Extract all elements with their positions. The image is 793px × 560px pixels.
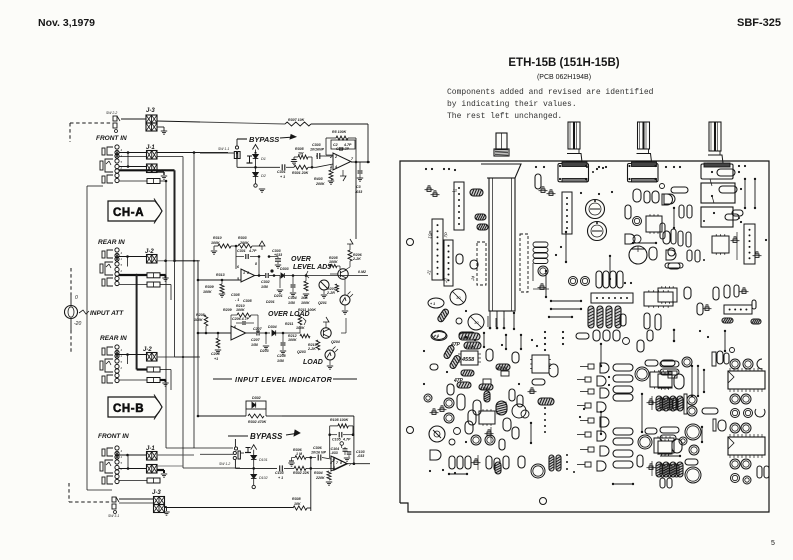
transistor PCB Q-b xyxy=(468,314,484,330)
ground J-1 B xyxy=(161,473,167,475)
svg-text:SW 1-1: SW 1-1 xyxy=(218,147,229,151)
oval F23 xyxy=(672,439,682,453)
jumper X9 xyxy=(600,412,602,434)
svg-text:R309: R309 xyxy=(205,285,214,289)
wire bold ground J-1 B xyxy=(157,469,164,471)
pills D36 xyxy=(465,421,473,434)
bracket F33 xyxy=(757,466,762,478)
wire J-3 to ground xyxy=(157,126,164,128)
svg-text:D203: D203 xyxy=(260,349,269,353)
svg-text:2-2K: 2-2K xyxy=(352,257,361,261)
ground D203 xyxy=(265,333,267,344)
svg-text:Q203: Q203 xyxy=(297,350,306,354)
transistor Q204 xyxy=(321,328,331,338)
trimmer E23 xyxy=(649,466,653,469)
svg-text:R301 20K: R301 20K xyxy=(292,171,309,175)
svg-text:R304: R304 xyxy=(314,471,323,475)
pill F28 xyxy=(685,459,698,465)
svg-text:C103: C103 xyxy=(275,471,284,475)
svg-text:1/50: 1/50 xyxy=(251,343,258,347)
resistor D2 hatched xyxy=(449,354,461,369)
svg-text:100K: 100K xyxy=(288,338,297,342)
pill D35 xyxy=(512,427,519,439)
pads C15 xyxy=(703,220,705,222)
IC C16 xyxy=(658,288,677,302)
IC B27 xyxy=(644,292,673,306)
ecap D1 xyxy=(431,332,447,341)
lamp LOAD xyxy=(325,350,335,360)
pills F11 column xyxy=(660,398,665,410)
svg-text:C207: C207 xyxy=(253,327,263,331)
pill C6 xyxy=(732,210,743,216)
pills C3 xyxy=(679,205,684,218)
svg-text:1/50: 1/50 xyxy=(288,301,295,305)
svg-text:SBF-325: SBF-325 xyxy=(737,17,781,29)
svg-text:4558: 4558 xyxy=(461,357,475,363)
svg-text:J-3: J-3 xyxy=(146,108,155,114)
potentiometer VR1 shaft xyxy=(496,133,507,149)
lamp Q201 xyxy=(340,295,350,305)
pills E1 xyxy=(576,333,589,339)
pills C17 xyxy=(684,287,691,299)
jumper D27 xyxy=(520,335,522,349)
pads B29 xyxy=(586,166,588,168)
svg-text:100K: 100K xyxy=(301,301,310,305)
resistor 470W hatched xyxy=(496,364,510,370)
svg-text:D304: D304 xyxy=(268,325,277,329)
dots E10 xyxy=(544,407,546,409)
PCB mounting hole bottom center xyxy=(540,498,547,505)
rings F13 xyxy=(687,395,697,405)
trimmer E29 xyxy=(530,390,534,393)
trimmer T1 xyxy=(427,188,431,191)
capacitor pills A4 xyxy=(456,254,463,264)
ground top xyxy=(161,130,167,132)
bracket F2 xyxy=(712,352,716,366)
pill F14 xyxy=(702,408,718,414)
capacitor bypass gnd xyxy=(247,155,252,157)
svg-text:1/50: 1/50 xyxy=(261,285,268,289)
resistor 600W hatched xyxy=(459,332,475,338)
IC C8 xyxy=(712,236,729,253)
diode ladder E11 xyxy=(588,364,594,369)
transistor Q205 xyxy=(338,269,348,279)
svg-text:10K: 10K xyxy=(294,502,301,506)
capacitor D30 xyxy=(447,384,454,395)
U-shape F17 xyxy=(755,409,765,417)
supply mark bottom amp xyxy=(251,445,257,450)
svg-text:-033: -033 xyxy=(331,451,338,455)
svg-text:16B: 16B xyxy=(301,296,308,300)
connector C21 xyxy=(724,305,752,314)
svg-text:100K: 100K xyxy=(329,260,338,264)
svg-text:REAR IN: REAR IN xyxy=(98,239,125,246)
big ring F30 xyxy=(685,467,701,483)
pills D15 xyxy=(503,418,511,431)
op-amp U2A xyxy=(241,269,255,282)
svg-text:R313: R313 xyxy=(216,273,225,277)
svg-text:R211 100K: R211 100K xyxy=(298,308,316,312)
svg-text:R105 100K: R105 100K xyxy=(330,418,349,422)
svg-text:+ 1: + 1 xyxy=(433,335,438,339)
capacitor C304 1/50 xyxy=(292,276,294,285)
svg-text:8: 8 xyxy=(255,262,257,266)
switch section SW4a xyxy=(701,183,735,203)
pads top left xyxy=(425,168,427,170)
svg-text:BYPASS: BYPASS xyxy=(249,135,279,144)
jumper D39 xyxy=(449,473,467,475)
svg-text:C2 4.7P: C2 4.7P xyxy=(336,147,350,151)
svg-text:C301: C301 xyxy=(277,170,286,174)
wire B17 xyxy=(532,263,534,281)
trimmer C18 xyxy=(742,290,746,293)
trimmer D37 xyxy=(487,432,491,435)
rings F24 xyxy=(679,437,687,445)
wire dashed top-left xyxy=(70,122,113,124)
resistor pills A2 xyxy=(475,214,486,220)
svg-text:10/16 NP: 10/16 NP xyxy=(311,451,327,455)
op-amp U2B output xyxy=(246,332,256,334)
ring E13 xyxy=(635,367,649,381)
resistor 47P hatched xyxy=(443,344,455,359)
pills C11 xyxy=(687,250,692,261)
rings D9 xyxy=(444,398,454,408)
rings D31 xyxy=(424,394,432,402)
wires J-2 rear B xyxy=(119,354,147,356)
IC E6 xyxy=(532,355,549,373)
pills C10 xyxy=(660,223,665,239)
capacitor C207 xyxy=(256,331,258,336)
jumper E28 xyxy=(613,483,633,485)
wire input row2 xyxy=(237,166,280,168)
jumper X1 xyxy=(565,232,567,262)
supply pin4 mark xyxy=(342,170,344,176)
svg-text:R305: R305 xyxy=(295,147,305,151)
pot VR1 pads xyxy=(489,311,491,327)
svg-text:7P: 7P xyxy=(443,232,449,238)
capacitor C105 4.7P xyxy=(330,434,337,436)
svg-text:1/50: 1/50 xyxy=(277,359,284,363)
pill B1 xyxy=(535,174,541,189)
blobs B10 xyxy=(625,234,635,244)
ring E27 xyxy=(531,464,545,478)
pills C19 xyxy=(697,303,703,315)
svg-text:INPUT LEVEL INDICATOR: INPUT LEVEL INDICATOR xyxy=(235,375,333,384)
potentiometer VR3 bushing xyxy=(639,149,649,154)
hole ring D16 xyxy=(429,426,445,442)
electrolytics E24 xyxy=(656,462,662,477)
trimmer C20 xyxy=(705,307,709,310)
label BYPASS bottom xyxy=(228,435,248,437)
svg-text:CH-A: CH-A xyxy=(113,207,144,219)
IC F22 partial xyxy=(658,441,672,454)
pads below VR1 xyxy=(487,316,489,327)
oval D11 xyxy=(468,410,476,425)
resistor 16B 100K xyxy=(305,276,307,282)
pills B4 xyxy=(633,189,641,202)
dots E26 xyxy=(566,454,568,456)
capacitor C3 -033 xyxy=(359,162,361,170)
supply balloon U1B xyxy=(340,442,344,446)
svg-text:2: 2 xyxy=(331,459,334,463)
jumper D5 xyxy=(505,335,507,349)
svg-text:C303: C303 xyxy=(312,143,321,147)
pill C13 xyxy=(665,263,683,268)
IC E14 xyxy=(650,372,672,387)
svg-text:220K: 220K xyxy=(315,476,325,480)
svg-text:D1: D1 xyxy=(261,157,266,161)
rings F15 xyxy=(730,394,740,404)
connector small front B xyxy=(147,478,160,483)
svg-text:-20: -20 xyxy=(74,321,81,327)
capacitor C301 xyxy=(281,164,283,170)
svg-text:8: 8 xyxy=(340,461,342,465)
jumper F25 xyxy=(701,427,703,442)
pill D3 xyxy=(486,349,493,361)
resistor 100W-2 hatched xyxy=(457,382,471,388)
coil stack B16 xyxy=(533,242,548,247)
diode D101 xyxy=(251,456,257,460)
jumper E18 xyxy=(641,394,643,432)
svg-text:R307 10K: R307 10K xyxy=(288,118,305,122)
trimmer C14 xyxy=(755,254,759,257)
pills D33 xyxy=(509,389,515,401)
trimmer D23 xyxy=(474,461,478,464)
svg-text:R209: R209 xyxy=(223,308,232,312)
svg-text:3: 3 xyxy=(330,165,332,169)
svg-text:D201: D201 xyxy=(274,294,283,298)
supply marks overload xyxy=(323,317,329,322)
jumper C25 xyxy=(673,330,675,341)
trimmer C9 xyxy=(733,239,737,242)
diode D1 xyxy=(253,155,259,159)
pills E12 column xyxy=(613,364,633,371)
svg-text:100K: 100K xyxy=(203,290,212,294)
svg-text:C205: C205 xyxy=(211,352,221,356)
svg-text:4: 4 xyxy=(334,165,337,169)
svg-text:470W: 470W xyxy=(479,387,490,391)
switch SW3-1 xyxy=(112,497,116,502)
jumper F35 xyxy=(673,330,675,341)
jumper right of VR1 xyxy=(513,313,515,329)
potentiometer VR2 bushing xyxy=(569,149,579,154)
test point dot xyxy=(270,269,273,272)
resistor 100W-3 hatched xyxy=(495,462,501,474)
resistor pills A1 xyxy=(470,189,483,196)
svg-text:R208: R208 xyxy=(196,313,205,317)
diode D2 xyxy=(255,167,257,172)
rings B19 xyxy=(569,277,578,286)
svg-text:R5 100K: R5 100K xyxy=(332,130,347,134)
pill B14 xyxy=(668,263,680,269)
big ring F20 xyxy=(685,424,701,440)
jumpers F9 xyxy=(691,366,693,396)
wire bypass R307 run xyxy=(121,118,146,120)
trimpot VR-B1 xyxy=(586,200,605,219)
wires J-2 rear A xyxy=(119,256,147,258)
jumper C4 xyxy=(744,179,746,208)
line F27 xyxy=(660,455,680,457)
svg-text:10: 10 xyxy=(456,295,461,300)
svg-text:R310: R310 xyxy=(213,236,222,240)
electrolytics E17 xyxy=(656,396,662,411)
capacitor bypass gnd B xyxy=(246,447,251,449)
pills F21 xyxy=(660,427,679,433)
electrolytics B25 x4 xyxy=(588,306,594,328)
svg-text:D201: D201 xyxy=(266,300,275,304)
svg-text:The rest left unchanged.: The rest left unchanged. xyxy=(447,112,562,121)
connector C7 xyxy=(744,224,755,264)
ring F1 xyxy=(682,357,692,367)
pad circle A6 xyxy=(456,318,462,324)
trimpot VR201 xyxy=(319,280,329,290)
pill B26 xyxy=(620,314,626,326)
rings D19 xyxy=(471,435,481,445)
svg-text:BYPASS: BYPASS xyxy=(250,432,283,441)
pills B28 xyxy=(644,313,650,329)
jack cluster front A xyxy=(107,147,113,155)
svg-text:SW 2-2: SW 2-2 xyxy=(106,111,117,115)
svg-text:+1: +1 xyxy=(214,357,218,361)
svg-text:OVER LOAD: OVER LOAD xyxy=(268,311,310,318)
jack cluster front B xyxy=(107,448,113,456)
svg-text:INPUT ATT: INPUT ATT xyxy=(90,310,124,317)
svg-text:4.7P: 4.7P xyxy=(248,249,257,253)
svg-text:SW 3-1: SW 3-1 xyxy=(108,514,119,518)
svg-text:C206 4.7P: C206 4.7P xyxy=(232,317,250,321)
connector small front A xyxy=(147,179,160,184)
pill E8 xyxy=(532,379,545,385)
jumper X3 xyxy=(609,256,611,279)
wire row3 rear A xyxy=(119,284,147,286)
pills B20 x4 xyxy=(596,271,602,288)
wire row3 rear B xyxy=(119,379,147,381)
IC F26 long xyxy=(728,437,765,455)
electrolytic cap A5 xyxy=(428,298,444,308)
potentiometer VR4 shaft xyxy=(709,122,715,151)
svg-text:4.7P: 4.7P xyxy=(342,438,351,442)
wire bold front A xyxy=(119,169,175,171)
trimmer B2 xyxy=(541,189,545,192)
dots E5 xyxy=(544,331,546,333)
op-amp U1B output xyxy=(347,463,370,465)
circle B5 xyxy=(660,184,665,189)
jack cluster rear A xyxy=(107,250,113,258)
wire bus front A xyxy=(157,152,228,154)
potentiometer VR4 bushing xyxy=(710,151,720,155)
jack cluster rear B xyxy=(107,347,113,355)
pills D24 row xyxy=(486,456,492,469)
svg-text:R302 470K: R302 470K xyxy=(248,420,267,424)
svg-text:8: 8 xyxy=(247,271,249,275)
svg-text:1: 1 xyxy=(243,271,245,275)
jumper B22 xyxy=(551,300,581,302)
op-amp U1B xyxy=(331,456,347,471)
wire bold rear B xyxy=(160,379,166,381)
svg-text:(PCB 062H194B): (PCB 062H194B) xyxy=(537,74,591,81)
svg-text:Components added and revised a: Components added and revised are identif… xyxy=(447,88,654,97)
box D7 xyxy=(483,379,491,384)
svg-text:2-2R: 2-2R xyxy=(326,291,335,295)
jumper X5 xyxy=(633,242,656,244)
svg-text:2: 2 xyxy=(120,366,123,370)
ring B15 xyxy=(538,266,548,276)
label INPUT LEVEL INDICATOR xyxy=(213,378,232,380)
svg-text:C305: C305 xyxy=(243,299,253,303)
svg-text:REAR IN: REAR IN xyxy=(100,335,127,342)
jumper D4 xyxy=(483,333,485,347)
label INPUT ATT xyxy=(79,310,89,314)
jumper B24 xyxy=(549,316,572,318)
svg-text:C3: C3 xyxy=(356,185,361,189)
pill E22 xyxy=(637,455,643,467)
rings F16 xyxy=(731,409,740,418)
svg-text:0: 0 xyxy=(75,295,78,301)
svg-text:SW 1-2: SW 1-2 xyxy=(219,462,230,466)
dashed rect right xyxy=(520,234,528,292)
ring B8 xyxy=(633,217,642,226)
capacitor D32 xyxy=(430,364,438,370)
svg-text:C208: C208 xyxy=(277,354,286,358)
svg-text:2-2K: 2-2K xyxy=(307,347,316,351)
svg-text:2: 2 xyxy=(120,269,123,273)
potentiometer VR4 body xyxy=(701,164,733,179)
wires J-3 bottom xyxy=(119,498,154,500)
extra grounds xyxy=(259,188,265,190)
junction wires mid-right xyxy=(344,279,346,295)
svg-text:ETH-15B (151H-15B): ETH-15B (151H-15B) xyxy=(508,57,619,69)
svg-text:CH-B: CH-B xyxy=(113,403,144,415)
ground J-2 A xyxy=(162,277,168,279)
supply mark top amp xyxy=(253,145,259,150)
pill D20 xyxy=(499,439,505,450)
svg-text:C304: C304 xyxy=(288,296,297,300)
wire bold rear A xyxy=(119,274,147,276)
wire dashed input att xyxy=(70,268,72,295)
svg-text:2: 2 xyxy=(334,155,337,159)
IC E21 xyxy=(654,438,674,453)
jumper X4 xyxy=(673,208,675,228)
bracket F18 xyxy=(713,419,716,431)
connector J4 dashed xyxy=(477,242,486,285)
svg-text:10/16NP: 10/16NP xyxy=(310,148,325,152)
coil E9 hatched xyxy=(538,398,554,405)
svg-text:C306: C306 xyxy=(313,446,323,450)
svg-text:R303: R303 xyxy=(238,236,247,240)
capacitor C102 xyxy=(279,465,281,471)
bracket F12 xyxy=(684,394,687,414)
resistor R209 xyxy=(217,333,219,338)
input wire mid xyxy=(198,279,241,281)
svg-text:C305: C305 xyxy=(231,293,241,297)
box D6 xyxy=(501,371,509,376)
oval F8 xyxy=(674,374,684,389)
D-shape B6 xyxy=(664,194,675,204)
pills F29 xyxy=(660,464,665,477)
pills D25 xyxy=(503,456,509,469)
capacitor R305 gnd xyxy=(293,157,295,160)
block arrow CH-B xyxy=(108,397,162,417)
pill E7 xyxy=(549,364,558,377)
svg-text:Q204: Q204 xyxy=(331,340,340,344)
wires J-1 B out xyxy=(157,454,194,456)
box F6 xyxy=(668,371,677,378)
wire feed top amp xyxy=(165,180,168,183)
svg-text:470W: 470W xyxy=(496,366,507,370)
svg-text:100K: 100K xyxy=(296,326,305,330)
label BYPASS top xyxy=(237,138,247,140)
svg-text:100K: 100K xyxy=(194,318,203,322)
